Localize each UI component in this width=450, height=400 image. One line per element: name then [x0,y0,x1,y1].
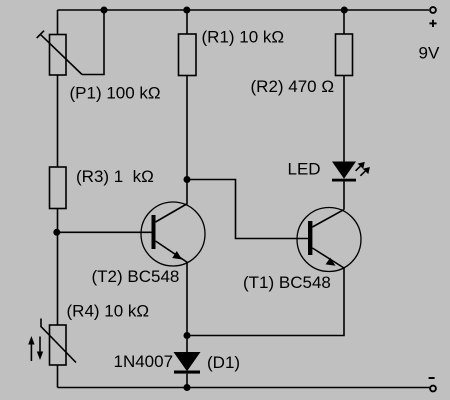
terminal - (battery negative) [430,386,436,392]
svg-text:1N4007: 1N4007 [114,352,174,371]
label T1 [243,273,331,292]
node junction top R1 [183,7,190,14]
label R1 value [202,28,285,47]
arrow up (R4 variation) [28,336,34,361]
wire T1 emitter down and left to D1 node [187,268,344,336]
node junction D1 cathode / bottom rail [184,384,191,391]
label T2 [92,267,180,286]
wire bottom rail [58,387,430,389]
LED light arrow 1 [356,162,365,171]
label LED [288,160,321,179]
diode D1 [174,336,201,388]
node junction T2 collector / T1 base link [184,176,191,183]
label - [429,377,435,379]
svg-text:(T2) BC548: (T2) BC548 [92,267,180,286]
transistor T2 [141,202,205,266]
svg-text:(R1) 10 kΩ: (R1) 10 kΩ [202,28,285,47]
svg-text:9V: 9V [419,44,440,63]
LED [332,162,356,182]
label 9V [419,44,440,63]
node junction R3/T2 base [53,229,60,236]
label R2 value [251,77,335,96]
label D1 [207,353,240,372]
svg-text:(P1) 100 kΩ: (P1) 100 kΩ [70,84,161,103]
wire T2 emitter down [186,263,188,336]
svg-text:(R4) 10 kΩ: (R4) 10 kΩ [67,302,150,321]
arrow down (R4 variation) [37,337,43,361]
node junction D1 anode / emitters [184,332,191,339]
svg-text:(R3) 1 kΩ: (R3) 1 kΩ [76,167,154,186]
resistor R2 [336,34,353,76]
resistor R3 [50,167,67,209]
svg-text:(T1) BC548: (T1) BC548 [243,273,331,292]
resistor R1 [179,34,197,76]
node junction top P1 wiper [101,7,108,14]
terminal + (battery positive) [430,7,436,13]
label P1 value [70,84,161,103]
wire left branch vertical [57,10,59,388]
label R4 value [67,302,150,321]
potentiometer P1 [37,31,82,75]
wire R2/LED branch vertical [343,10,345,210]
thermistor R4 [41,319,76,366]
wire top rail [58,9,430,11]
LED light arrow 2 [360,167,370,176]
wire middle branch vertical [186,10,188,204]
svg-text:(R2) 470 Ω: (R2) 470 Ω [251,77,335,96]
svg-text:(D1): (D1) [207,353,240,372]
wire base link R1/T2-collector node to T1 base [187,180,308,239]
transistor T1 [297,208,361,272]
label D1 part number [114,352,174,371]
wire P1 wiper to top rail [82,10,104,75]
label R3 value [76,167,154,186]
label + [429,20,436,27]
svg-text:LED: LED [288,160,321,179]
wire T2 base from R3 node [58,231,152,233]
node junction top R2 [341,7,348,14]
